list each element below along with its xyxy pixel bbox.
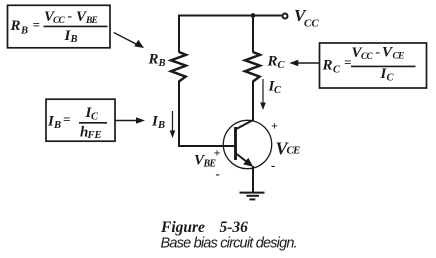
arrow from RB box to RB resistor [114,33,144,49]
wire: emitter to ground [252,166,254,192]
svg-text:B: B [20,25,28,36]
wire: base horizontal [178,145,234,147]
formula box RB = (VCC - VBE)/IB [8,5,111,48]
svg-text:CC: CC [53,16,66,26]
label VCC [294,6,319,30]
label IC [268,79,283,96]
svg-text:BE: BE [203,158,217,169]
svg-text:CC: CC [361,52,374,62]
svg-text:-: - [271,158,275,173]
svg-text:B: B [157,120,165,131]
current arrow IC [260,79,266,110]
arrow from IB box to IB label [115,117,145,123]
svg-text:=: = [63,112,70,127]
label IB [151,114,165,131]
label VBE with polarity [194,146,221,182]
label VCE with polarity [271,119,300,173]
svg-text:R: R [10,18,21,34]
transistor Q1 collector [235,120,253,130]
svg-text:CE: CE [287,145,301,157]
current arrow IB [170,111,176,138]
svg-text:-: - [68,9,73,24]
svg-text:C: C [91,112,99,123]
wire: right branch from rail to RC [252,15,254,53]
wire: top horizontal rail [178,15,282,17]
svg-text:C: C [278,60,286,71]
svg-text:CE: CE [393,52,405,62]
svg-text:C: C [333,65,341,76]
transistor Q1 base bar [234,127,237,160]
svg-text:FE: FE [87,130,102,141]
svg-text:R: R [148,52,159,68]
svg-text:B: B [158,58,166,69]
formula box IB = IC/hFE [46,99,115,141]
label RC [267,54,286,72]
svg-text:BE: BE [85,16,98,26]
label RB [148,52,166,70]
svg-text:+: + [271,119,278,133]
svg-text:R: R [267,54,278,70]
svg-text:R: R [322,58,333,74]
svg-text:-: - [216,166,220,181]
VCC terminal (open circle) [283,14,288,19]
svg-text:=: = [33,17,40,32]
svg-text:-: - [376,45,381,60]
svg-text:Base bias circuit design.: Base bias circuit design. [161,235,297,251]
transistor Q1 emitter with arrow [236,154,253,167]
caption: Figure 5-36 [160,219,248,236]
svg-text:C: C [387,73,395,84]
svg-text:B: B [53,120,61,131]
svg-text:5-36: 5-36 [220,219,249,236]
wire: RB to base corner [178,81,180,147]
formula box RC = (VCC - VCE)/IC [320,43,427,88]
ground [240,193,265,200]
wire: RC to collector [252,81,254,121]
resistor RC [245,52,260,82]
resistor RB [171,52,186,82]
svg-text:C: C [274,85,282,96]
svg-text:CC: CC [304,18,319,30]
node: junction dot at RC branch [251,13,256,18]
transistor Q1 circle [223,120,271,168]
svg-text:B: B [70,34,78,45]
svg-text:Figure: Figure [160,219,205,236]
svg-text:=: = [344,55,351,70]
arrow from RC box to RC resistor [289,60,319,66]
wire: left branch from rail to RB [178,15,180,53]
